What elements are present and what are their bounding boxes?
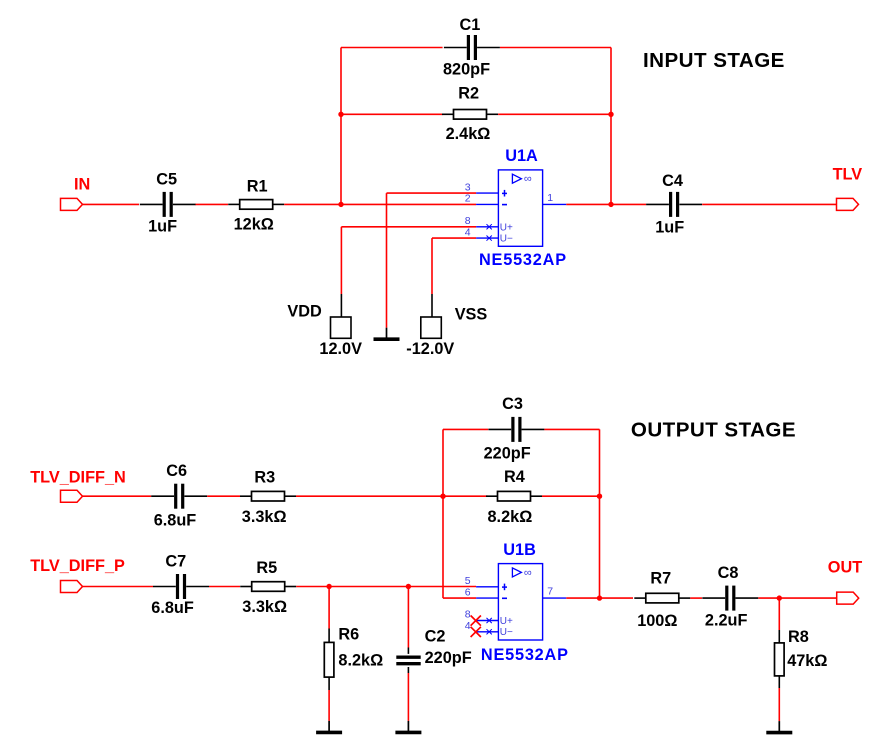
op-amp U1B <box>471 564 567 640</box>
wire U1A pin3 to ground vertical <box>387 192 477 194</box>
ground (R8) <box>766 688 792 733</box>
resistor R4 <box>486 491 542 501</box>
svg-text:R3: R3 <box>254 469 275 487</box>
wire U1A pin8 to VDD <box>341 226 476 228</box>
wire inverting vertical to U1B pin6 <box>443 597 476 599</box>
svg-text:TLV_DIFF_P: TLV_DIFF_P <box>30 557 125 575</box>
wire IN to C5 <box>83 203 140 205</box>
capacitor C3 <box>488 417 544 442</box>
wire right feedback vertical (output stage) <box>599 429 601 598</box>
wire R5 to U1B pin5 <box>296 586 476 588</box>
svg-text:100Ω: 100Ω <box>637 612 677 630</box>
wire C5 to R1 <box>196 203 229 205</box>
svg-text:C4: C4 <box>662 172 683 190</box>
node U1B output junction <box>597 595 602 600</box>
svg-text:R6: R6 <box>338 626 359 644</box>
svg-text:INPUT STAGE: INPUT STAGE <box>643 49 785 72</box>
wire R7 to C8 <box>690 597 702 599</box>
capacitor C1 <box>444 35 500 60</box>
port TLV_DIFF_N <box>61 490 83 502</box>
svg-text:U−: U− <box>500 627 513 638</box>
svg-text:C1: C1 <box>460 16 481 34</box>
wire N port to C6 <box>83 495 152 497</box>
resistor R5 <box>240 582 296 592</box>
port TLV <box>837 198 859 210</box>
node R8 junction <box>777 595 782 600</box>
resistor R3 <box>240 491 296 501</box>
svg-text:∞: ∞ <box>524 567 532 579</box>
wire P port to C7 <box>83 586 154 588</box>
node C2 junction <box>406 584 411 589</box>
svg-text:U1B: U1B <box>503 541 536 559</box>
svg-text:TLV_DIFF_N: TLV_DIFF_N <box>30 469 126 487</box>
wire R4 row right <box>542 495 600 497</box>
node R4 right junction <box>597 494 602 499</box>
svg-text:220pF: 220pF <box>425 649 472 667</box>
wire C1 row left <box>341 47 443 49</box>
svg-text:VSS: VSS <box>455 306 488 324</box>
wire right feedback vertical <box>610 48 612 205</box>
svg-text:7: 7 <box>547 586 553 598</box>
ground (R6) <box>316 690 342 732</box>
svg-text:R1: R1 <box>247 177 268 195</box>
wire R2 row right <box>498 113 611 115</box>
node inverting input junction <box>440 494 445 499</box>
resistor R1 <box>228 200 284 210</box>
svg-text:R2: R2 <box>458 84 479 102</box>
wire U1A pin4 to VSS <box>432 237 476 239</box>
wire C3 row right <box>544 428 599 430</box>
capacitor C8 <box>702 586 758 611</box>
port TLV_DIFF_P <box>61 581 83 593</box>
port OUT <box>837 592 859 604</box>
capacitor C7 <box>153 574 209 599</box>
wire R4 row left <box>443 495 488 497</box>
svg-text:3: 3 <box>465 181 471 193</box>
svg-text:47kΩ: 47kΩ <box>787 652 827 670</box>
svg-text:NE5532AP: NE5532AP <box>481 646 569 664</box>
svg-text:6.8uF: 6.8uF <box>154 512 197 530</box>
wire C3 row left <box>443 428 488 430</box>
svg-text:8.2kΩ: 8.2kΩ <box>338 651 383 669</box>
svg-text:C8: C8 <box>718 564 739 582</box>
wire C6 to R3 <box>207 495 240 497</box>
svg-text:OUTPUT STAGE: OUTPUT STAGE <box>631 419 796 442</box>
svg-text:2.2uF: 2.2uF <box>705 611 748 629</box>
port IN <box>61 198 83 210</box>
wire C7 to R5 <box>209 586 240 588</box>
resistor R6 <box>324 587 334 691</box>
wire R1 to U1A pin2 <box>284 203 476 205</box>
svg-text:C2: C2 <box>425 628 446 646</box>
wire VSS vertical <box>431 238 433 294</box>
wire C1 row right <box>500 47 611 49</box>
wire U1A output to C4 <box>566 203 646 205</box>
svg-text:5: 5 <box>465 575 471 587</box>
wire left feedback vertical <box>340 48 342 205</box>
svg-text:4: 4 <box>465 226 471 238</box>
wire VDD vertical <box>340 227 342 294</box>
svg-text:TLV: TLV <box>833 166 863 184</box>
svg-text:3.3kΩ: 3.3kΩ <box>242 508 287 526</box>
svg-text:OUT: OUT <box>828 559 862 577</box>
capacitor C4 <box>646 192 702 217</box>
svg-text:NE5532AP: NE5532AP <box>479 251 567 269</box>
svg-text:3.3kΩ: 3.3kΩ <box>242 598 287 616</box>
resistor R8 <box>775 598 785 688</box>
no-connect X on pin <box>471 627 481 637</box>
svg-text:C3: C3 <box>502 395 523 413</box>
capacitor C2 <box>396 587 420 674</box>
power symbol VDD <box>331 294 352 338</box>
svg-text:U1A: U1A <box>505 147 538 165</box>
wire left feedback vertical (output stage) <box>442 429 444 598</box>
op-amp U1A <box>476 170 566 246</box>
svg-text:8: 8 <box>465 215 471 227</box>
wire R3 to inverting node <box>296 495 443 497</box>
ground (input stage) <box>374 193 400 339</box>
svg-text:820pF: 820pF <box>443 60 490 78</box>
svg-text:2: 2 <box>465 193 471 205</box>
node R1-feedback junction <box>338 202 343 207</box>
resistor R7 <box>634 593 690 603</box>
svg-text:2.4kΩ: 2.4kΩ <box>446 125 491 143</box>
resistor R2 <box>442 110 498 120</box>
svg-text:1uF: 1uF <box>148 217 177 235</box>
svg-text:R8: R8 <box>788 628 809 646</box>
svg-text:6.8uF: 6.8uF <box>151 599 194 617</box>
svg-text:R4: R4 <box>504 468 525 486</box>
svg-text:R5: R5 <box>256 559 277 577</box>
wire C8 to OUT port <box>758 597 836 599</box>
capacitor C6 <box>151 484 207 509</box>
svg-text:8: 8 <box>465 609 471 621</box>
svg-text:C7: C7 <box>165 552 186 570</box>
node R6 junction <box>326 584 331 589</box>
svg-text:IN: IN <box>74 176 90 194</box>
ground (C2) <box>395 721 421 733</box>
svg-text:-12.0V: -12.0V <box>406 340 454 358</box>
svg-text:C5: C5 <box>156 170 177 188</box>
svg-text:8.2kΩ: 8.2kΩ <box>488 508 533 526</box>
svg-text:1uF: 1uF <box>655 219 684 237</box>
svg-text:12kΩ: 12kΩ <box>234 215 274 233</box>
svg-text:U+: U+ <box>500 222 513 233</box>
svg-text:VDD: VDD <box>287 302 322 320</box>
svg-text:1: 1 <box>547 192 553 204</box>
node R2 right junction <box>608 112 613 117</box>
svg-text:R7: R7 <box>650 570 671 588</box>
svg-text:12.0V: 12.0V <box>319 340 362 358</box>
svg-text:220pF: 220pF <box>484 444 531 462</box>
no-connect X on pin <box>471 616 481 626</box>
svg-text:6: 6 <box>465 586 471 598</box>
wire R2 row left <box>341 113 443 115</box>
capacitor C5 <box>140 192 196 217</box>
svg-text:C6: C6 <box>166 462 187 480</box>
wire C2 to ground <box>407 673 409 721</box>
wire U1B output to R7 <box>566 597 633 599</box>
power symbol VSS <box>421 294 442 338</box>
svg-text:∞: ∞ <box>524 173 532 185</box>
node output junction <box>608 202 613 207</box>
wire C4 to TLV port <box>702 203 836 205</box>
svg-text:U+: U+ <box>500 616 513 627</box>
node R2 left junction <box>338 112 343 117</box>
svg-text:U−: U− <box>500 234 513 245</box>
svg-text:4: 4 <box>465 620 471 632</box>
